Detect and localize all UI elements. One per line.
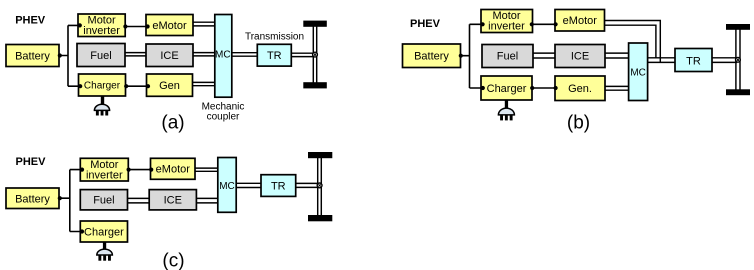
svg-text:eMotor: eMotor [152,20,187,32]
svg-text:Battery: Battery [15,51,50,63]
svg-text:PHEV: PHEV [410,18,441,30]
svg-text:Fuel: Fuel [90,50,111,62]
svg-text:TR: TR [686,55,701,67]
svg-text:inverter: inverter [488,20,525,32]
svg-text:inverter: inverter [86,170,123,182]
svg-text:Fuel: Fuel [93,195,114,207]
svg-text:Gen: Gen [159,80,180,92]
svg-text:TR: TR [267,50,282,62]
svg-text:ICE: ICE [571,51,589,63]
svg-text:Charger: Charger [487,83,527,95]
svg-text:MC: MC [630,68,646,79]
svg-text:eMotor: eMotor [563,15,598,27]
svg-text:Fuel: Fuel [497,51,518,63]
svg-text:Gen.: Gen. [568,83,592,95]
svg-text:Battery: Battery [15,193,50,205]
svg-text:inverter: inverter [83,25,120,37]
svg-text:eMotor: eMotor [156,164,191,176]
svg-text:ICE: ICE [164,195,182,207]
svg-text:MC: MC [219,181,235,192]
svg-text:Charger: Charger [84,81,121,92]
svg-text:Transmission: Transmission [245,32,304,43]
svg-text:PHEV: PHEV [15,15,46,27]
svg-text:(a): (a) [161,113,184,134]
svg-text:MC: MC [215,50,231,61]
svg-text:Charger: Charger [84,226,124,238]
svg-text:PHEV: PHEV [16,156,47,168]
svg-text:(b): (b) [567,113,590,134]
svg-text:TR: TR [271,180,286,192]
svg-text:Battery: Battery [414,51,449,63]
svg-text:(c): (c) [162,251,184,270]
svg-text:ICE: ICE [160,50,178,62]
svg-text:coupler: coupler [207,112,240,123]
